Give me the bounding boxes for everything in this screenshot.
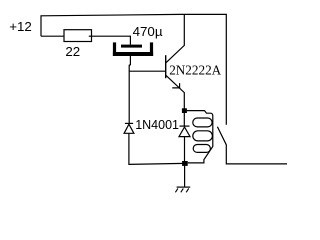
svg-text:1N4001: 1N4001 (135, 118, 179, 132)
svg-text:+12: +12 (9, 19, 32, 34)
svg-text:2N2222A: 2N2222A (169, 63, 221, 78)
svg-text:470µ: 470µ (133, 24, 163, 39)
svg-text:22: 22 (65, 44, 80, 59)
